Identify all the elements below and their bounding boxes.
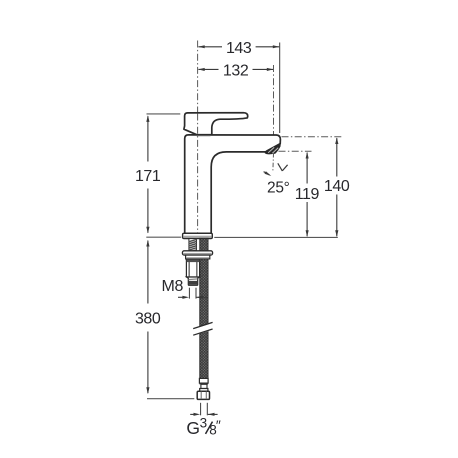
mounting washer plate — [182, 251, 212, 255]
svg-text:3: 3 — [200, 416, 208, 431]
hose end ferrule — [199, 378, 208, 383]
aerator (dark spout mouth) — [265, 143, 280, 154]
dimension 171 vertical — [147, 116, 149, 233]
deck reference line right — [214, 236, 337, 238]
spout tip axis centerline (132 reference) — [273, 65, 275, 152]
hose end neck — [201, 384, 207, 388]
reference line at hose end (380 bottom) — [147, 398, 194, 400]
svg-text:132: 132 — [223, 62, 249, 79]
V arrowhead of 25deg tilted axis — [278, 163, 283, 171]
spout top reference dash-dot (140) — [282, 136, 343, 138]
M8 fixing stud — [186, 259, 199, 277]
svg-text:140: 140 — [324, 178, 350, 195]
svg-text:″: ″ — [216, 417, 221, 433]
svg-text:25°: 25° — [267, 179, 290, 196]
hose end band — [200, 389, 208, 392]
extension line right of 143 (spout outermost) — [279, 43, 281, 134]
braided flexible hose — [200, 238, 208, 378]
G3/8 label and arrows — [200, 403, 202, 416]
threaded shank spring — [189, 239, 197, 253]
dimension 132 horizontal — [198, 68, 273, 70]
dimension 119 vertical — [306, 153, 308, 237]
washer second layer — [186, 255, 210, 259]
left arrow of 25deg — [264, 172, 270, 175]
hose break symbol — [193, 323, 213, 336]
25 degree outflow axis annotation — [272, 153, 275, 171]
base flange — [183, 233, 213, 238]
faucet body and spout outline — [185, 135, 281, 234]
main vertical centerline over faucet — [197, 114, 199, 234]
svg-text:M8: M8 — [161, 278, 183, 295]
M8 label and arrows — [188, 288, 190, 299]
extension line at deck level left — [146, 236, 181, 238]
svg-text:143: 143 — [226, 40, 252, 57]
handle lever — [184, 113, 248, 135]
svg-text:380: 380 — [135, 311, 161, 328]
main vertical centerline of faucet body (upper part) — [197, 41, 199, 114]
svg-text:171: 171 — [135, 168, 161, 185]
extension line at handle top (171 reference) — [147, 113, 181, 115]
svg-text:G: G — [186, 418, 200, 438]
svg-text:119: 119 — [295, 186, 320, 203]
junction shading between handle and body — [197, 134, 211, 136]
outlet reference dash-dot (119) — [279, 150, 312, 152]
dimension 140 vertical — [336, 138, 338, 236]
M8 stud tip — [187, 277, 200, 285]
G3/8 nut — [197, 391, 209, 399]
dimension 380 vertical — [147, 241, 149, 394]
dimension 143 horizontal — [198, 46, 279, 48]
